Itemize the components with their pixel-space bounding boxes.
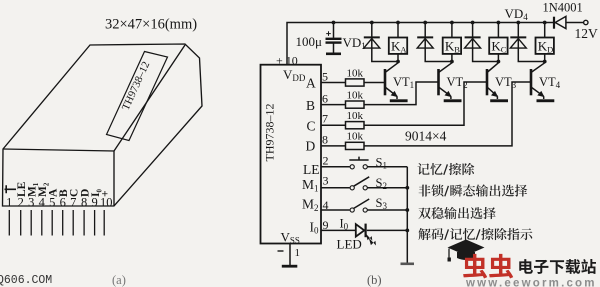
svg-text:2: 2 [323,154,329,168]
svg-text:KD: KD [538,39,554,55]
svg-text:www.eeworm.com: www.eeworm.com [465,278,597,287]
diode VD2 [417,23,452,62]
svg-text:12V: 12V [575,26,599,41]
common bus down from switches [406,167,408,263]
label: decode/memory/erase indicator [418,228,430,240]
watermark site name [519,259,533,274]
diode VD3 [465,23,499,62]
label: bistable output select [418,208,430,220]
svg-text:VT4: VT4 [539,75,561,90]
svg-text:LED: LED [337,237,362,252]
svg-text:32×47×16(mm): 32×47×16(mm) [105,17,197,33]
svg-text:LE: LE [303,162,320,177]
svg-text:1: 1 [295,247,301,259]
svg-text:S1: S1 [376,155,387,170]
label: memory/erase [417,163,429,175]
svg-text:4: 4 [39,196,46,210]
diode VD4 [510,23,544,62]
node dots on rail [332,21,547,25]
svg-text:3: 3 [323,173,329,187]
svg-text:1: 1 [6,196,12,210]
wire D to VT4 base [364,82,530,146]
wire: +12V power rail [287,23,553,65]
svg-text:8: 8 [322,133,328,147]
label: non-lock/momentary output select [419,185,431,197]
resistor 10k row C [321,124,346,126]
svg-text:6: 6 [60,196,66,210]
svg-text:VDD: VDD [283,67,306,83]
svg-text:VT3: VT3 [495,75,517,90]
svg-text:2: 2 [18,196,24,210]
wire A to VT1 base [364,82,384,84]
transistor VT3 [487,63,498,99]
svg-text:KB: KB [445,39,460,55]
svg-text:TH9738–12: TH9738–12 [263,104,277,162]
svg-text:S3: S3 [376,196,388,211]
switch S2 [321,187,350,189]
IC pin name letters [302,75,320,235]
svg-text:VT1: VT1 [393,75,414,90]
relay KC [497,23,499,38]
svg-text:TH9738–12: TH9738–12 [120,60,153,112]
svg-text:10k: 10k [347,89,364,101]
resistor 10k row B [321,104,346,106]
svg-text:Q606.COM: Q606.COM [0,274,52,287]
svg-text:D: D [306,139,316,154]
svg-text:(b): (b) [367,273,382,287]
svg-text:7: 7 [70,196,76,210]
svg-text:1N4001: 1N4001 [543,1,583,15]
svg-text:(a): (a) [112,273,126,287]
svg-text:10k: 10k [347,67,364,79]
switch S3 [321,209,350,211]
transistor VT2 [439,63,452,99]
relay KA [397,23,399,38]
svg-text:+ 10: + 10 [276,54,298,68]
svg-text:10k: 10k [347,110,364,122]
wire B to VT2 base [364,82,438,105]
svg-text:10: 10 [100,196,113,210]
svg-text:5: 5 [322,69,328,83]
svg-text:6: 6 [322,92,328,106]
module pins [9,210,104,236]
relay KD [544,23,546,38]
IC TH9738-12 body [261,65,322,244]
diode VD1 [364,23,398,62]
module outline box (a) [3,44,203,206]
switch S1 (pushbutton) [321,166,350,168]
wire C to VT3 base [364,82,486,125]
transistor VT1 [385,63,398,99]
svg-text:10k: 10k [347,131,364,143]
capacitor 100u [326,23,342,54]
module top label strip [107,52,168,141]
svg-text:B: B [306,98,315,113]
relay KB [451,23,453,38]
svg-text:9014×4: 9014×4 [405,129,447,144]
svg-text:KA: KA [391,39,407,55]
transistor VT4 [531,63,545,99]
svg-text:C: C [307,119,316,134]
svg-text:I0: I0 [310,219,320,235]
svg-text:100μ: 100μ [296,34,323,49]
resistor 10k row A [321,82,346,84]
watermark graduation cap [448,240,485,256]
svg-text:M2: M2 [302,197,319,214]
svg-text:VT2: VT2 [447,75,468,90]
svg-text:8: 8 [81,196,87,210]
svg-text:A: A [306,75,316,90]
svg-text:7: 7 [322,112,328,126]
svg-text:VD4: VD4 [505,6,529,22]
svg-text:VSS: VSS [281,230,300,246]
diode 1N4001 series [554,16,588,28]
svg-text:KC: KC [491,39,506,55]
LED indicator [321,229,356,231]
watermark chongchong red [463,254,487,279]
svg-text:5: 5 [49,196,55,210]
VSS ground [289,244,291,266]
svg-text:VD1: VD1 [343,35,366,51]
svg-text:M1: M1 [302,177,319,194]
module pin numbers 1-10 [6,196,112,210]
IC pin numbers [322,69,329,231]
resistor 10k row D [321,145,346,147]
svg-text:I0: I0 [340,217,349,232]
svg-text:3: 3 [28,196,34,210]
module pin function labels [16,181,112,197]
svg-text:S2: S2 [376,176,387,191]
svg-text:9: 9 [91,196,97,210]
